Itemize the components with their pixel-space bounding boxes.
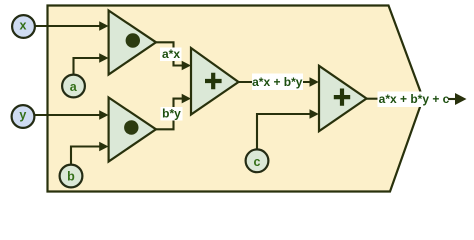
label a*x (160, 48, 182, 62)
wire b to M2 (71, 147, 100, 166)
dot of M1 (126, 33, 140, 47)
node x (12, 15, 35, 38)
node c (246, 149, 269, 172)
svg-text:c: c (254, 155, 261, 169)
svg-text:y: y (19, 108, 26, 122)
wire M2 to A1 (156, 99, 183, 130)
label a*x + b*y (252, 74, 303, 91)
svg-text:a*x + b*y: a*x + b*y (252, 75, 303, 89)
svg-text:x: x (20, 19, 27, 33)
label a*x + b*y + c (378, 92, 450, 108)
svg-text:b: b (67, 169, 75, 183)
wire a to M1 (74, 58, 101, 75)
svg-text:a*x + b*y + c: a*x + b*y + c (379, 92, 450, 106)
wire A1 to A2 (239, 81, 311, 83)
output arrow (448, 98, 456, 100)
wire y to M2 (35, 114, 100, 116)
wire x to M1 (36, 25, 101, 27)
node b (60, 165, 83, 188)
dot of M2 (124, 120, 138, 134)
plus of A2 (334, 89, 350, 106)
adder A2 (319, 66, 367, 131)
adder A1 (191, 48, 239, 115)
enclosure pentagon (48, 6, 424, 192)
wire c to A2 (257, 114, 310, 150)
node a (62, 75, 85, 98)
label b*y (161, 107, 183, 121)
plus of A1 (205, 73, 222, 90)
wire A2 to output (367, 98, 383, 100)
svg-text:a*x: a*x (162, 47, 180, 61)
multiplier M2 (109, 98, 156, 162)
wire M1 to A1 (156, 42, 183, 65)
svg-text:b*y: b*y (162, 107, 181, 121)
svg-text:a: a (70, 80, 78, 94)
multiplier M1 (109, 11, 156, 75)
node y (12, 105, 35, 128)
